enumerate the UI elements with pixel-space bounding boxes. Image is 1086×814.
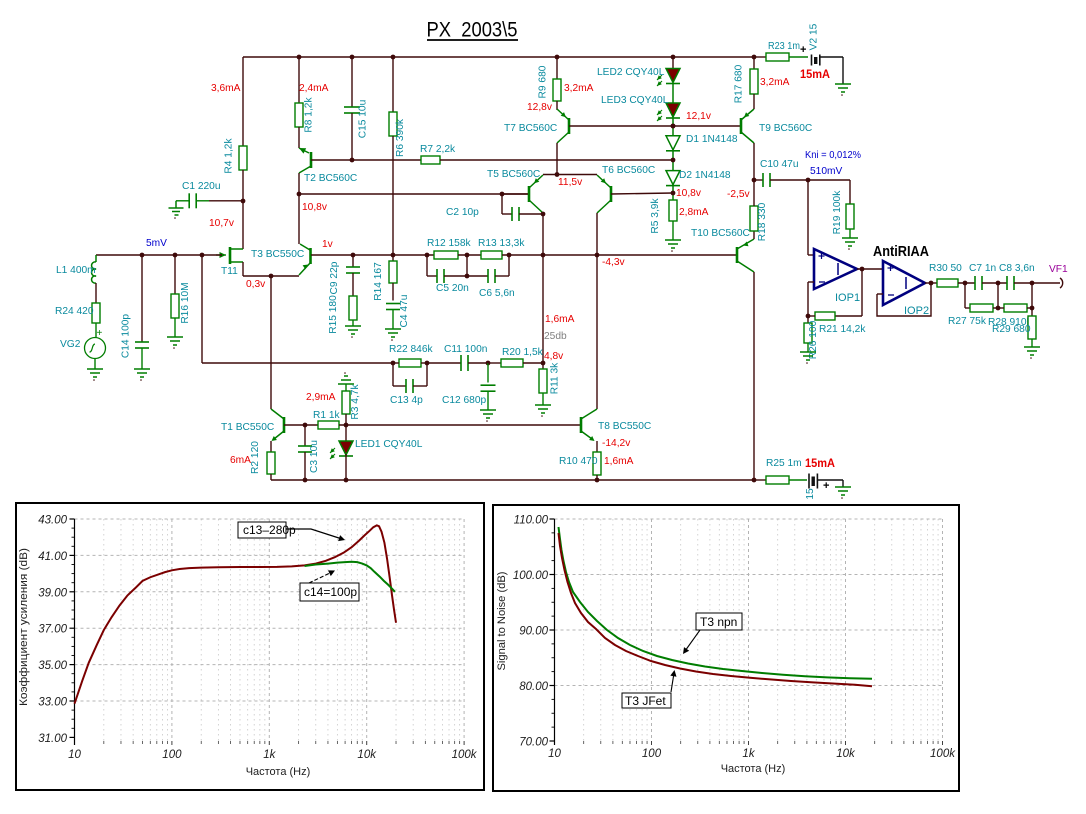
svg-text:R18 330: R18 330 — [757, 202, 768, 241]
resistor R13 13,3k — [481, 251, 502, 259]
svg-text:C9 22p: C9 22p — [329, 261, 340, 294]
wire C8 to output — [1014, 282, 1060, 284]
wire rail to R4 — [242, 57, 244, 146]
wire battery to ground bottom — [817, 479, 843, 481]
resistor R7 2,2k — [421, 156, 440, 164]
transistor T10 BC560C — [736, 247, 739, 263]
svg-text:C14 100p: C14 100p — [121, 314, 132, 359]
svg-text:33.00: 33.00 — [38, 697, 67, 709]
svg-text:LED1 CQY40L: LED1 CQY40L — [355, 439, 423, 450]
resistor R4 1,2k — [239, 146, 247, 170]
wire R1 to LED1 node — [339, 424, 581, 426]
svg-text:5mV: 5mV — [146, 238, 167, 249]
LED2 CQY40L — [672, 57, 674, 69]
svg-text:c13–280p: c13–280p — [243, 523, 296, 537]
resistor R28 910k — [1004, 304, 1027, 312]
wire R28 to R29 — [1031, 283, 1033, 308]
wire diff pair top — [543, 174, 597, 176]
wire R3 to node — [345, 414, 347, 425]
wire T10 emitter to R18 — [753, 231, 755, 239]
curve c13=280p maroon — [75, 525, 397, 703]
svg-text:15: 15 — [805, 488, 816, 500]
diode D1 1N4148 — [666, 136, 680, 150]
svg-text:31.00: 31.00 — [38, 733, 67, 745]
svg-text:R25 1m: R25 1m — [766, 458, 802, 469]
wire R10 to rail — [596, 475, 598, 480]
svg-text:+: + — [97, 328, 103, 339]
wire LED3 to node — [672, 119, 674, 136]
ground above R3 — [338, 383, 354, 385]
resistor R9 680 — [553, 79, 561, 101]
svg-text:10,8v: 10,8v — [676, 188, 702, 199]
resistor R17 680 — [750, 69, 758, 94]
svg-text:110.00: 110.00 — [514, 515, 549, 527]
svg-text:2,8mA: 2,8mA — [679, 207, 709, 218]
svg-text:R9 680: R9 680 — [538, 65, 549, 98]
svg-text:C15 10u: C15 10u — [358, 100, 369, 139]
wire R4 to T11 drain — [242, 170, 244, 249]
svg-text:C10 47u: C10 47u — [760, 159, 799, 170]
svg-text:R30 50: R30 50 — [929, 263, 962, 274]
capacitor C6 5,6n — [467, 275, 488, 277]
svg-text:V2 15: V2 15 — [809, 23, 820, 50]
svg-text:T8 BC550C: T8 BC550C — [598, 421, 651, 432]
svg-text:VF1: VF1 — [1049, 264, 1068, 275]
wire D1 to R7 node — [672, 150, 674, 171]
curve c14=100p green — [305, 562, 395, 592]
resistor R23 1m — [754, 56, 766, 58]
svg-text:R20 1,5k: R20 1,5k — [502, 347, 544, 358]
resistor R30 50 — [937, 279, 958, 287]
wire R9 to T7 — [556, 101, 558, 110]
svg-text:T1 BC550C: T1 BC550C — [221, 422, 274, 433]
wire T11 source to T1 — [270, 276, 272, 409]
svg-text:10k: 10k — [836, 748, 856, 760]
wire C7 to C8 — [982, 282, 1007, 284]
wire T2 collector down — [298, 173, 300, 194]
svg-text:LED2 CQY40L: LED2 CQY40L — [597, 67, 665, 78]
capacitor C15 10u — [344, 106, 360, 108]
svg-text:1,6mA: 1,6mA — [545, 314, 575, 325]
svg-text:IOP1: IOP1 — [835, 292, 860, 304]
svg-text:IOP2: IOP2 — [904, 305, 929, 317]
wire LED1 to rail — [345, 454, 347, 480]
transistor T3 BC550C — [309, 248, 312, 264]
svg-text:L1 400m: L1 400m — [56, 265, 96, 276]
wire IOP2 feedback — [877, 293, 883, 295]
svg-text:PX 2003\5: PX 2003\5 — [427, 18, 518, 42]
terminal VF1 — [1060, 278, 1063, 288]
resistor R14 167 — [392, 255, 394, 261]
svg-text:70.00: 70.00 — [519, 737, 548, 749]
svg-text:Signal to Noise (dB): Signal to Noise (dB) — [496, 572, 508, 671]
wire C7 bypass down — [964, 283, 966, 308]
capacitor C11 100n — [427, 362, 461, 364]
op-amp IOP2 — [883, 261, 925, 305]
svg-text:12,1v: 12,1v — [686, 111, 712, 122]
svg-text:R17 680: R17 680 — [734, 64, 745, 103]
wire R8 to T2 emitter — [298, 127, 300, 148]
svg-text:T2 BC560C: T2 BC560C — [304, 173, 357, 184]
LED3 CQY40L — [672, 84, 674, 103]
wire to IOP1 + input — [807, 180, 809, 255]
JFET T11 — [229, 247, 232, 264]
op-amp IOP1 — [814, 249, 857, 289]
svg-text:T6 BC560C: T6 BC560C — [602, 165, 655, 176]
wire T6 collector down — [596, 213, 598, 409]
resistor R21 14,2k — [815, 312, 835, 320]
svg-text:VG2: VG2 — [60, 339, 81, 350]
wire C8 bypass down — [997, 283, 999, 308]
svg-text:T11: T11 — [221, 266, 238, 277]
svg-text:100.00: 100.00 — [513, 570, 549, 582]
svg-text:Частота (Hz): Частота (Hz) — [721, 763, 786, 775]
wire 1v node — [311, 254, 434, 256]
transistor T8 BC550C — [580, 417, 583, 433]
battery V2 15 — [789, 56, 808, 58]
wire IOP1 feedback — [861, 269, 863, 316]
svg-text:C3 10u: C3 10u — [309, 440, 320, 473]
svg-text:39.00: 39.00 — [38, 587, 67, 599]
wire IOP1 - input — [808, 281, 814, 283]
svg-text:0,3v: 0,3v — [246, 279, 266, 290]
wire D2 to node 10,8v — [672, 184, 674, 200]
annotation T3 JFet — [622, 693, 671, 708]
wire rail to R8 — [298, 57, 300, 103]
svg-text:80.00: 80.00 — [519, 681, 548, 693]
wire T10 collector down — [753, 272, 755, 480]
svg-text:R15 180: R15 180 — [328, 295, 339, 334]
transistor T7 BC560C — [568, 118, 571, 134]
resistor R18 330 — [750, 206, 758, 231]
chart y-axis — [554, 519, 556, 745]
wire A down to T3 collector — [298, 194, 300, 244]
resistor R29 680 — [1031, 308, 1033, 316]
svg-text:R8 1,2k: R8 1,2k — [304, 97, 315, 133]
transistor T5 BC560C — [528, 186, 531, 202]
wire T1/T8 base rail — [284, 424, 318, 426]
svg-text:c14=100p: c14=100p — [304, 585, 357, 599]
wire R18 to C10 node — [753, 180, 755, 206]
capacitor C7 1n — [974, 276, 976, 290]
source VG2 — [85, 338, 106, 359]
svg-text:T3 JFet: T3 JFet — [625, 694, 666, 708]
transistor T1 BC550C — [283, 417, 286, 433]
curve T3 JFet maroon — [559, 533, 873, 686]
capacitor C5 20n — [426, 255, 428, 276]
svg-text:100k: 100k — [452, 749, 478, 761]
wire C10 to R19 — [808, 179, 850, 181]
wire T7 collector down — [556, 143, 558, 175]
svg-text:3,2mA: 3,2mA — [760, 77, 790, 88]
svg-text:R29 680: R29 680 — [992, 324, 1031, 335]
transistor T6 BC560C — [610, 186, 613, 202]
wire 1v node right — [502, 254, 737, 256]
wire R2 to rail — [270, 474, 272, 480]
wire T6 base — [611, 193, 673, 194]
transistor T9 BC560C — [740, 118, 743, 134]
capacitor C3 10u — [304, 425, 306, 446]
svg-text:R2 120: R2 120 — [250, 441, 261, 474]
resistor R25 1m — [754, 479, 766, 481]
svg-text:90.00: 90.00 — [519, 626, 548, 638]
svg-text:100k: 100k — [930, 748, 956, 760]
svg-text:R16 10M: R16 10M — [180, 282, 191, 323]
chart gridlines — [74, 519, 76, 741]
annotation c14=100p — [300, 583, 359, 601]
resistor R8 1,2k — [295, 103, 303, 127]
resistor R22 846k — [399, 359, 421, 367]
chart frame — [16, 503, 484, 790]
svg-text:AntiRIAA: AntiRIAA — [873, 244, 929, 260]
resistor R12 158k — [434, 251, 458, 259]
wire T8 emitter to R10 — [596, 441, 598, 452]
svg-text:Kni = 0,012%: Kni = 0,012% — [805, 150, 861, 161]
svg-text:R26 100: R26 100 — [808, 320, 819, 359]
wire rail to R6 — [392, 57, 394, 112]
svg-text:R6 390k: R6 390k — [395, 118, 406, 157]
svg-text:T5 BC560C: T5 BC560C — [487, 169, 540, 180]
svg-text:R11 3k: R11 3k — [550, 362, 561, 394]
svg-text:R24 420: R24 420 — [55, 306, 94, 317]
svg-text:Частота (Hz): Частота (Hz) — [246, 766, 311, 778]
chart gridlines — [554, 519, 556, 741]
svg-text:15mA: 15mA — [805, 456, 835, 470]
svg-text:R14 167: R14 167 — [373, 262, 384, 301]
svg-text:1v: 1v — [322, 239, 334, 250]
wire C14 branch — [141, 255, 143, 342]
svg-text:R1 1k: R1 1k — [313, 410, 341, 421]
diode D2 1N4148 — [666, 171, 680, 185]
wire IOP1 output — [857, 268, 883, 270]
svg-text:R23 1m: R23 1m — [768, 41, 800, 52]
capacitor C8 3,6n — [1006, 276, 1008, 290]
svg-text:C2 10p: C2 10p — [446, 207, 479, 218]
LED1 CQY40L — [345, 425, 347, 441]
svg-text:4,8v: 4,8v — [544, 351, 564, 362]
capacitor C12 680p — [487, 363, 489, 383]
resistor R26 100 — [807, 316, 809, 323]
annotation c13-280p — [238, 522, 286, 538]
wire T11 source — [242, 262, 244, 276]
svg-text:35.00: 35.00 — [38, 660, 67, 672]
svg-text:10,7v: 10,7v — [209, 218, 235, 229]
wire R12-R13 — [458, 254, 481, 256]
capacitor C1 220u — [176, 200, 189, 202]
svg-text:11,5v: 11,5v — [558, 177, 583, 188]
svg-text:R12 158k: R12 158k — [427, 238, 472, 249]
svg-text:R5 3,9k: R5 3,9k — [650, 198, 661, 234]
svg-text:+: + — [823, 480, 829, 492]
node C1 junction — [241, 199, 246, 204]
svg-text:100: 100 — [642, 748, 662, 760]
resistor R20 1,5k — [488, 362, 501, 364]
svg-text:T7 BC560C: T7 BC560C — [504, 123, 557, 134]
wire bottom rail — [271, 479, 754, 481]
svg-text:LED3 CQY40L: LED3 CQY40L — [601, 95, 669, 106]
svg-text:10,8v: 10,8v — [302, 202, 328, 213]
wire T2 base bootstrap — [311, 159, 421, 161]
svg-text:Коэффициент усиления (dB): Коэффициент усиления (dB) — [18, 548, 30, 706]
wire T1 emitter to R2 — [270, 441, 272, 452]
svg-text:R7 2,2k: R7 2,2k — [420, 144, 456, 155]
svg-text:R22 846k: R22 846k — [389, 344, 434, 355]
capacitor C10 47u — [754, 179, 763, 181]
capacitor C13 4p — [392, 363, 394, 386]
svg-text:10: 10 — [68, 749, 81, 761]
svg-text:12,8v: 12,8v — [527, 102, 553, 113]
svg-text:C6 5,6n: C6 5,6n — [479, 288, 515, 299]
resistor R16 10M — [171, 294, 179, 318]
resistor R24 420 — [92, 303, 100, 323]
wire L1 to R24 — [95, 283, 97, 303]
wire feedback tap down — [201, 255, 203, 363]
wire C5-C6 middle tap — [466, 255, 468, 276]
svg-text:10k: 10k — [357, 749, 377, 761]
svg-text:1k: 1k — [742, 748, 755, 760]
svg-text:C5 20n: C5 20n — [436, 283, 469, 294]
svg-text:510mV: 510mV — [810, 166, 842, 177]
svg-text:C4 47u: C4 47u — [399, 295, 410, 328]
svg-text:2,9mA: 2,9mA — [306, 392, 336, 403]
svg-text:3,6mA: 3,6mA — [211, 83, 241, 94]
wire R17 to T9 emitter — [753, 94, 755, 109]
wire R9 column — [556, 57, 558, 79]
wire R16 branch — [174, 255, 176, 294]
svg-text:1,6mA: 1,6mA — [604, 456, 634, 467]
resistor R3 4,7k — [342, 391, 350, 414]
capacitor C9 22p — [352, 255, 354, 267]
svg-text:R19 100k: R19 100k — [832, 190, 843, 235]
annotation T3 npn — [696, 613, 742, 630]
wire IOP2 output — [925, 282, 937, 284]
battery bottom 15 — [789, 479, 807, 481]
wire R30 to C7 — [958, 282, 975, 284]
wire collector bus A — [299, 193, 528, 195]
resistor R15 180 — [352, 273, 354, 296]
svg-text:100: 100 — [162, 749, 182, 761]
resistor R5 3,9k — [669, 200, 677, 221]
wire rail to R17 — [753, 57, 755, 69]
wire R7 to diode node — [440, 159, 673, 161]
svg-text:R27 75k: R27 75k — [948, 316, 987, 327]
svg-text:T10 BC560C: T10 BC560C — [691, 228, 750, 239]
wire T5 base — [502, 193, 528, 195]
svg-text:C1 220u: C1 220u — [182, 181, 221, 192]
capacitor C4 47u — [392, 283, 394, 301]
svg-text:R10 470: R10 470 — [559, 456, 598, 467]
wire rail to C15 — [351, 57, 353, 107]
resistor R10 470 — [593, 452, 601, 475]
svg-text:41.00: 41.00 — [38, 551, 67, 563]
chart y-axis — [74, 519, 76, 745]
capacitor C2 10p — [501, 194, 503, 214]
wire top supply rail — [243, 56, 754, 58]
resistor R2 120 — [267, 452, 275, 474]
svg-text:R13 13,3k: R13 13,3k — [478, 238, 525, 249]
resistor R11 3k — [542, 363, 544, 369]
wire C15 to base wire — [351, 113, 353, 160]
svg-text:43.00: 43.00 — [38, 515, 67, 527]
resistor R19 100k — [849, 180, 851, 204]
wire T7/T9 base bus — [569, 125, 741, 127]
svg-text:+: + — [800, 44, 806, 56]
wire input node — [96, 254, 222, 256]
svg-text:1k: 1k — [263, 749, 276, 761]
wire R6 down to node 1v — [392, 136, 394, 255]
svg-text:C13 4p: C13 4p — [390, 395, 423, 406]
capacitor C14 100p — [135, 341, 149, 343]
wire feedback to R22 — [202, 362, 393, 364]
svg-text:C8 3,6n: C8 3,6n — [999, 263, 1035, 274]
wire battery to ground — [820, 56, 843, 58]
svg-text:R3 4,7k: R3 4,7k — [350, 384, 361, 420]
wire T9 collector down — [753, 143, 755, 180]
curve T3 npn green — [559, 527, 873, 679]
svg-text:15mA: 15mA — [800, 67, 830, 81]
wire VG2 to ground — [94, 359, 96, 370]
svg-text:2,4mA: 2,4mA — [299, 83, 329, 94]
svg-text:-14,2v: -14,2v — [602, 438, 631, 449]
wire T5 collector down — [542, 213, 544, 363]
svg-text:C11 100n: C11 100n — [444, 344, 487, 355]
wire R24 to VG2 — [95, 323, 97, 337]
transistor T2 BC560C — [310, 152, 313, 168]
ground C1 — [175, 201, 177, 208]
svg-text:R4 1,2k: R4 1,2k — [224, 138, 235, 174]
svg-text:10: 10 — [548, 748, 561, 760]
resistor R6 390k — [389, 112, 397, 136]
svg-text:C12 680p: C12 680p — [442, 395, 487, 406]
resistor R27 75k — [965, 307, 970, 309]
svg-text:37.00: 37.00 — [38, 624, 67, 636]
svg-text:D2 1N4148: D2 1N4148 — [679, 170, 731, 181]
svg-text:25db: 25db — [544, 331, 567, 342]
svg-text:C7 1n: C7 1n — [969, 263, 996, 274]
svg-text:D1 1N4148: D1 1N4148 — [686, 134, 738, 145]
svg-text:-2,5v: -2,5v — [727, 189, 751, 200]
svg-text:3,2mA: 3,2mA — [564, 83, 594, 94]
svg-text:T3 BC550C: T3 BC550C — [251, 249, 304, 260]
node T2 collector — [297, 192, 302, 197]
ground R5 — [672, 221, 674, 240]
svg-text:R21 14,2k: R21 14,2k — [819, 324, 866, 335]
svg-text:T9 BC560C: T9 BC560C — [759, 123, 812, 134]
inductor L1 400m — [95, 255, 97, 262]
svg-text:-4,3v: -4,3v — [602, 257, 626, 268]
svg-text:6mA: 6mA — [230, 455, 251, 466]
resistor R1 1k — [318, 421, 339, 429]
svg-text:T3 npn: T3 npn — [700, 615, 737, 629]
chart frame — [493, 505, 959, 791]
